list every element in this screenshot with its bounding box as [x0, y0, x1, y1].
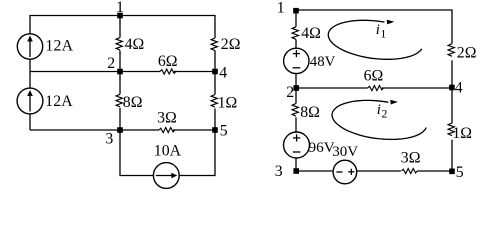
- svg-text:1: 1: [380, 26, 386, 40]
- svg-text:3Ω: 3Ω: [157, 110, 177, 127]
- svg-text:3: 3: [105, 130, 113, 147]
- svg-text:i: i: [377, 102, 381, 118]
- svg-text:4: 4: [219, 65, 227, 82]
- svg-text:12A: 12A: [45, 37, 73, 54]
- svg-text:8Ω: 8Ω: [300, 104, 320, 121]
- svg-text:48V: 48V: [310, 54, 336, 70]
- svg-text:96V: 96V: [309, 139, 335, 156]
- svg-text:1: 1: [277, 0, 285, 17]
- svg-text:2Ω: 2Ω: [457, 44, 477, 61]
- svg-text:4: 4: [455, 80, 463, 97]
- svg-text:4Ω: 4Ω: [125, 36, 145, 53]
- svg-text:1Ω: 1Ω: [452, 125, 472, 142]
- svg-text:6Ω: 6Ω: [158, 53, 178, 70]
- svg-text:2: 2: [107, 55, 115, 72]
- svg-text:2: 2: [381, 106, 387, 120]
- svg-text:2Ω: 2Ω: [221, 36, 241, 53]
- svg-text:12A: 12A: [45, 93, 73, 110]
- svg-text:10A: 10A: [154, 143, 182, 160]
- svg-text:5: 5: [456, 164, 464, 181]
- svg-text:4Ω: 4Ω: [301, 25, 321, 42]
- svg-text:3: 3: [275, 163, 283, 180]
- svg-text:1Ω: 1Ω: [218, 95, 238, 112]
- svg-text:1: 1: [116, 0, 124, 16]
- svg-text:i: i: [376, 22, 380, 38]
- svg-text:30V: 30V: [332, 144, 358, 160]
- svg-text:6Ω: 6Ω: [364, 68, 384, 85]
- svg-text:3Ω: 3Ω: [401, 150, 421, 167]
- svg-text:2: 2: [286, 84, 294, 101]
- svg-text:8Ω: 8Ω: [123, 94, 143, 111]
- svg-text:5: 5: [220, 123, 228, 140]
